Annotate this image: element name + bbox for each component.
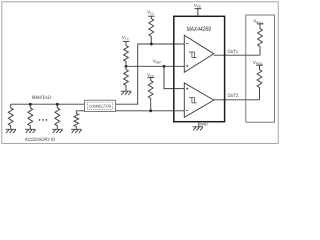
pin IN2+ plus <box>186 87 189 90</box>
node RID2 junction <box>29 103 32 106</box>
svg-text:OUT1: OUT1 <box>228 49 239 55</box>
svg-text:VCC: VCC <box>147 10 154 16</box>
connector CONNECTOR box <box>85 100 116 111</box>
wire: VREF branch down to IN2+ <box>164 66 185 88</box>
comparator U1a <box>184 35 214 72</box>
pin IN2- minus <box>186 109 189 111</box>
resistor RD1 (divider top) <box>124 41 129 66</box>
resistor RA (VCC pull-up to IN1-) <box>149 16 154 44</box>
resistor RID2 <box>28 104 33 129</box>
ground (RID1) <box>6 129 16 133</box>
node VREF branch junction <box>163 65 166 68</box>
resistor RPULL2 <box>257 65 262 100</box>
resistor RD2 (divider bottom) <box>124 66 129 91</box>
pin IN1- minus <box>186 43 189 45</box>
svg-text:CONNECTOR: CONNECTOR <box>89 104 111 109</box>
svg-text:VREF: VREF <box>153 59 162 65</box>
GND pin <box>198 122 200 127</box>
host module box <box>246 15 275 122</box>
pin IN1+ plus <box>186 65 189 68</box>
ground (divider) <box>121 91 131 95</box>
hysteresis glyph U1b <box>189 97 197 103</box>
node IN1- junction <box>150 43 153 46</box>
svg-text:VDD: VDD <box>194 3 201 9</box>
node RID3 junction <box>56 103 59 106</box>
wire: OUT2 <box>214 99 260 101</box>
svg-text:ACCESSORY ID: ACCESSORY ID <box>25 137 56 142</box>
IC U1 MAX44269 box <box>174 16 225 121</box>
wire: connector to riser to IN1- <box>116 44 185 104</box>
node VREF junction <box>125 65 128 68</box>
ground (IC) <box>193 127 203 131</box>
resistor RPULL1 <box>258 24 263 55</box>
resistor RID1 <box>8 104 13 129</box>
comparator U1b <box>184 83 214 117</box>
hysteresis glyph U1a <box>189 52 197 58</box>
svg-text:MAX44269: MAX44269 <box>187 26 212 33</box>
svg-text:REMOTE KEY: REMOTE KEY <box>32 95 52 100</box>
resistor RID3 <box>55 104 60 129</box>
wire: accessory id line to IN2- (passes under connector) <box>76 110 184 112</box>
node IN2- junction <box>149 109 152 112</box>
ground (RID4) <box>71 129 81 133</box>
ground (RID2) <box>25 129 35 133</box>
ellipsis (more ID resistors) <box>39 119 47 121</box>
svg-text:GND: GND <box>200 123 209 127</box>
ground (RID3) <box>52 129 62 133</box>
wire: OUT1 <box>214 54 260 56</box>
svg-text:VCC: VCC <box>122 35 129 41</box>
wire: VREF line to IN1+ <box>126 65 185 67</box>
resistor RID4 <box>74 111 79 130</box>
border frame <box>2 2 278 144</box>
wire: remote key bus (left section) <box>11 103 85 105</box>
resistor RB (VCC pull-up to IN2-) <box>148 78 153 111</box>
svg-text:OUT2: OUT2 <box>228 93 239 99</box>
